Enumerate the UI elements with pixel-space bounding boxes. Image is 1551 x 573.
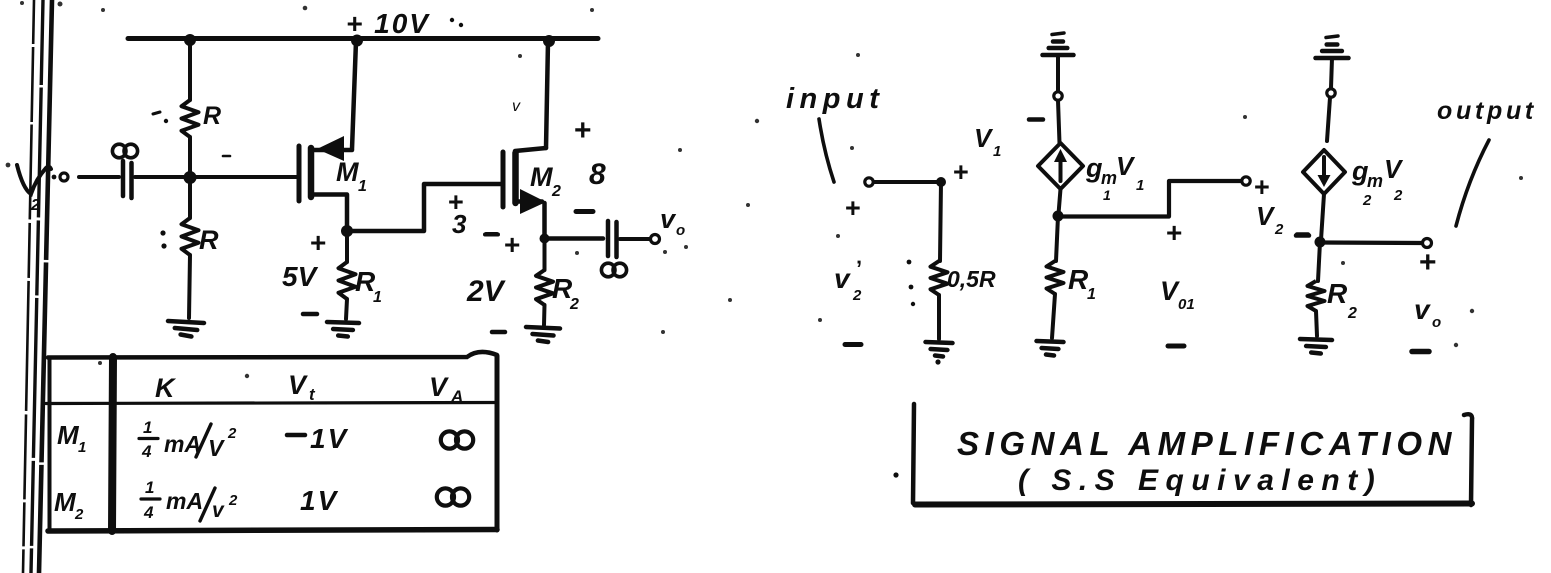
node | rail-left junction <box>184 34 196 46</box>
label vi input signal <box>17 165 56 214</box>
node | output terminal vo <box>651 235 660 244</box>
wire | M2 source to out cap <box>545 236 604 241</box>
label - (v3b) <box>486 232 497 236</box>
svg-text:4: 4 <box>141 442 152 461</box>
table row M2 VA value: infinity <box>437 488 469 505</box>
svg-text:2: 2 <box>1274 221 1284 238</box>
svg-text:mA: mA <box>164 431 201 457</box>
node | scan speckles <box>6 1 1523 378</box>
label R2 <box>552 273 579 313</box>
node | V1 node <box>936 177 946 187</box>
wire | R1ss to ground <box>1052 294 1055 338</box>
svg-text:1: 1 <box>358 178 367 195</box>
svg-text:+: + <box>953 157 969 187</box>
label - (v2 input bottom) <box>845 342 861 347</box>
wire | rail to upper R <box>188 40 192 100</box>
ground | R1 SS branch <box>1037 341 1064 356</box>
dependent source gm2V2 | down arrow <box>1318 157 1331 187</box>
svg-text:ʼ: ʼ <box>856 256 862 281</box>
node | stray dot left of caption box <box>893 472 898 477</box>
svg-text:2: 2 <box>852 287 862 304</box>
node | gm2-R2 node <box>1315 237 1326 248</box>
table | header separator <box>46 403 497 404</box>
svg-text:V: V <box>1256 201 1276 231</box>
label gm1V1 <box>1085 151 1144 203</box>
table | outer frame <box>48 352 497 531</box>
resistor R (upper bias) <box>182 100 199 137</box>
caption line 2: ( S.S Equivalent) <box>1018 464 1382 497</box>
wire | out cap to terminal <box>620 237 649 241</box>
label infinity (input cap) <box>112 144 137 158</box>
svg-text:1: 1 <box>993 143 1001 160</box>
wire | node down to R1ss <box>1056 216 1058 261</box>
wire | gm2 to vo node <box>1321 194 1324 240</box>
svg-text:2: 2 <box>1362 192 1372 209</box>
resistor 0.5R <box>931 261 948 295</box>
label - (Vo1) <box>1168 344 1184 349</box>
svg-text:1V: 1V <box>310 423 349 454</box>
label 0,5R <box>947 266 996 292</box>
svg-text:1: 1 <box>145 478 154 497</box>
node | gate bias node <box>184 171 197 184</box>
resistor R (lower bias) <box>182 218 199 255</box>
wire | +10V supply rail <box>128 36 598 41</box>
node | gm1 top terminal <box>1054 92 1062 100</box>
wire | output pointer arc <box>1456 140 1489 226</box>
label R2 (SS) <box>1327 278 1357 322</box>
transistor M2 | drain lead <box>515 148 546 151</box>
svg-text:1: 1 <box>373 289 382 306</box>
svg-text:input: input <box>786 83 884 115</box>
wire | input pointer arc <box>819 119 834 182</box>
label + (v2 input top) <box>845 193 861 223</box>
svg-text:V: V <box>974 123 994 153</box>
svg-text:2: 2 <box>551 183 561 200</box>
svg-text:2: 2 <box>228 492 238 509</box>
transistor M1 | drain arrow <box>317 136 344 161</box>
table header K <box>155 373 177 403</box>
wire | gate node to lower R <box>188 177 192 218</box>
svg-text:V: V <box>1116 151 1136 181</box>
wire | 0.5R to ground <box>937 295 941 339</box>
label output <box>1437 97 1537 125</box>
node | stray colon near lower R <box>160 230 166 248</box>
label - (left of vo node) <box>1297 232 1308 237</box>
label - (5V bottom) <box>303 312 317 317</box>
wire | M2 drain to rail <box>546 41 548 148</box>
svg-text:o: o <box>1432 314 1441 331</box>
svg-text:1: 1 <box>143 418 152 437</box>
label + (vo2 top) <box>574 114 592 147</box>
svg-text:M: M <box>530 162 553 192</box>
svg-text:1: 1 <box>78 439 86 456</box>
transistor M1 | source lead <box>311 195 347 230</box>
svg-text:+: + <box>845 193 861 223</box>
svg-text:2V: 2V <box>466 275 507 308</box>
label vo (left circuit output) <box>660 204 685 239</box>
table row M1 VA value: infinity <box>441 431 473 448</box>
label Vo1 <box>1160 276 1195 313</box>
label R1 (SS) <box>1068 264 1096 303</box>
svg-text:V: V <box>1160 276 1180 306</box>
label 3 <box>452 209 467 239</box>
svg-text:01: 01 <box>1178 296 1195 313</box>
svg-text:mA: mA <box>166 488 203 514</box>
wire | gm1 to V2 node <box>1059 189 1061 214</box>
ground | input branch <box>926 342 953 357</box>
label + (Vo1) <box>1166 217 1182 248</box>
label v2' (input source) <box>834 256 862 304</box>
transistor M1 | channel bar <box>308 148 315 197</box>
svg-text:m: m <box>1367 171 1383 191</box>
table | thick column divider <box>112 357 113 531</box>
table row M2 K value: 1/4 mA/V^2 <box>141 478 238 522</box>
label R (upper) <box>203 102 221 130</box>
resistor R1 <box>339 262 356 299</box>
table row M1 K value: 1/4 mA/V^2 <box>139 418 237 461</box>
table header VA <box>429 372 463 406</box>
label 5V <box>282 261 319 292</box>
transistor M2 | source arrow <box>520 189 546 214</box>
label M2 <box>530 162 561 200</box>
svg-text:M: M <box>336 157 359 187</box>
label M1 <box>336 157 367 195</box>
svg-text:2: 2 <box>1347 305 1357 322</box>
dependent source gm1V1 | up arrow <box>1054 149 1067 181</box>
svg-text:K: K <box>155 373 177 403</box>
svg-text:2: 2 <box>227 425 237 442</box>
ground | gm1 top (inverted) <box>1043 33 1074 55</box>
svg-text:+: + <box>310 227 326 258</box>
svg-text:v: v <box>660 204 677 234</box>
caption box frame <box>913 404 1472 505</box>
wire | R2 to ground <box>542 305 547 325</box>
wire | M1 drain to rail <box>352 41 356 149</box>
node | SS output terminal <box>1423 239 1432 248</box>
wire | source node to R1 <box>345 231 349 262</box>
label infinity (output cap) <box>601 263 626 277</box>
table row M2 label <box>54 487 84 523</box>
wire | input to coupling cap <box>79 175 119 179</box>
table row M2 Vt value: 1V <box>300 485 339 516</box>
label R1 <box>355 266 382 306</box>
label V1 <box>974 123 1001 160</box>
svg-text:( S.S Equivalent): ( S.S Equivalent) <box>1018 464 1382 497</box>
wire | terminal to gm1 source <box>1058 101 1060 144</box>
svg-text:v: v <box>1414 294 1431 325</box>
table row M1 Vt value: -1V <box>287 423 349 454</box>
label + (5V top) <box>310 227 326 258</box>
wire | gm2 ground stem <box>1331 58 1332 88</box>
ground | R2 <box>526 327 560 342</box>
label V2 <box>1256 201 1284 238</box>
svg-text:SIGNAL AMPLIFICATION: SIGNAL AMPLIFICATION <box>957 425 1457 462</box>
svg-text:4: 4 <box>143 503 154 522</box>
svg-text:+: + <box>574 114 592 147</box>
wire | left margin scan line 2 <box>31 0 43 573</box>
label 8 <box>589 158 606 191</box>
table row M1 label <box>57 420 86 456</box>
svg-text:v: v <box>512 98 521 115</box>
label + (V1) <box>953 157 969 187</box>
wire | source node to R2 <box>543 239 547 271</box>
node | stray marks near upper R <box>153 112 230 156</box>
node | rail-M1 junction <box>351 35 363 47</box>
svg-text:8: 8 <box>589 158 606 191</box>
node | M2 source node <box>540 234 550 244</box>
svg-text:1V: 1V <box>300 485 339 516</box>
svg-text:+: + <box>504 229 520 260</box>
wire | R1 to ground <box>346 299 347 319</box>
wire | input terminal to node <box>874 180 940 184</box>
wire | cap to gate node <box>135 175 297 179</box>
label - (V2) <box>1296 233 1309 238</box>
svg-text:2: 2 <box>74 506 84 523</box>
svg-text:M: M <box>54 487 77 517</box>
resistor R2 (SS) <box>1308 281 1325 311</box>
capacitor C-in (infinite) <box>123 161 132 198</box>
wire | M1 source to M2 gate <box>347 184 501 231</box>
svg-text:+: + <box>1254 172 1270 202</box>
wire | node down to R2ss <box>1318 242 1320 281</box>
label small v tick (above M2) <box>512 98 521 115</box>
svg-text:1: 1 <box>1136 177 1144 194</box>
wire | node to step (horizontal) <box>1058 181 1241 217</box>
wire | gm1 ground stem <box>1056 55 1060 91</box>
ground | R2 SS branch <box>1300 339 1332 354</box>
label R (lower) <box>199 225 219 255</box>
svg-text:R: R <box>203 102 221 130</box>
svg-text:0,5R: 0,5R <box>947 266 996 292</box>
label + (V2) <box>1254 172 1270 202</box>
node | gm1-R1 node <box>1053 211 1064 222</box>
svg-text:output: output <box>1437 97 1537 125</box>
transistor M2 | channel bar <box>512 153 519 203</box>
svg-text:V: V <box>429 372 449 402</box>
svg-text:+: + <box>1166 217 1182 248</box>
transistor M2 | gate bar <box>501 152 506 207</box>
ground | R1 <box>327 322 359 337</box>
svg-text:M: M <box>57 420 80 450</box>
svg-text:5V: 5V <box>282 261 319 292</box>
resistor R1 (SS) <box>1047 261 1064 294</box>
dependent source gm1V1 | diamond <box>1038 143 1083 189</box>
resistor R2 <box>536 270 553 305</box>
label + (2V top) <box>504 229 520 260</box>
wire | V1 node down to 0.5R <box>940 182 941 261</box>
svg-text:+ 10V: + 10V <box>346 8 430 39</box>
wire | R2ss to ground <box>1316 311 1317 336</box>
svg-text:2: 2 <box>569 296 579 313</box>
label - (near M2 source) <box>576 209 593 214</box>
label input <box>786 83 884 115</box>
svg-text:m: m <box>1101 168 1117 188</box>
wire | terminal to gm2 source <box>1327 98 1330 142</box>
label vo (SS output) <box>1414 294 1441 331</box>
label - (2V bottom) <box>492 330 505 335</box>
caption line 1: SIGNAL AMPLIFICATION <box>957 425 1457 462</box>
label - (gm1 top) <box>1029 117 1043 122</box>
node | stray colon dots <box>907 260 916 307</box>
transistor M2 | source lead <box>515 199 542 204</box>
node | stray dot below input ground <box>935 359 940 364</box>
svg-text:2: 2 <box>30 197 40 214</box>
wire | lower R to ground <box>189 255 190 318</box>
node | rail-M2 junction <box>543 35 555 47</box>
label - (vo SS) <box>1412 349 1429 355</box>
ground | gm2 top (inverted) <box>1316 36 1349 58</box>
svg-text:o: o <box>676 222 685 239</box>
svg-text:V: V <box>208 435 225 461</box>
wire | node to output terminal <box>1320 240 1422 245</box>
label gm2V2 <box>1351 154 1404 209</box>
wire | upper R to gate node <box>188 137 192 177</box>
svg-text:v: v <box>834 263 851 294</box>
label 2V <box>466 275 507 308</box>
svg-text:2: 2 <box>1393 187 1403 204</box>
wire | left margin scan line 3 <box>39 0 52 573</box>
label + (v3 top) <box>448 187 464 217</box>
dependent source gm2V2 | diamond <box>1303 150 1345 194</box>
svg-text:3: 3 <box>452 209 467 239</box>
node | SS input terminal <box>865 178 873 186</box>
svg-text:1: 1 <box>1103 187 1111 203</box>
svg-text:R: R <box>1327 278 1348 309</box>
label +10V <box>346 8 463 39</box>
node | M1 source node <box>341 225 353 237</box>
svg-text:V: V <box>288 370 308 400</box>
wire | M2 source down <box>542 203 547 239</box>
transistor M1 | drain lead <box>313 148 352 153</box>
node | V2 terminal <box>1242 177 1250 185</box>
svg-text:+: + <box>1419 246 1437 279</box>
node | gm2 top terminal <box>1327 89 1335 97</box>
ground | left bias branch <box>168 321 204 337</box>
transistor M1 | gate bar <box>297 146 302 201</box>
label - (v3 bottom) <box>485 233 498 237</box>
svg-text:1: 1 <box>1087 286 1096 303</box>
table header Vt <box>288 370 316 404</box>
svg-text:R: R <box>199 225 219 255</box>
node | input terminal <box>60 173 68 181</box>
svg-text:V: V <box>1384 154 1404 184</box>
label + (vo SS) <box>1419 246 1437 279</box>
svg-text:v: v <box>212 499 225 522</box>
svg-text:A: A <box>450 387 463 406</box>
svg-text:R: R <box>1068 264 1089 295</box>
wire | left margin scan line 1 <box>23 0 34 573</box>
capacitor C-out (infinite) <box>608 221 617 257</box>
